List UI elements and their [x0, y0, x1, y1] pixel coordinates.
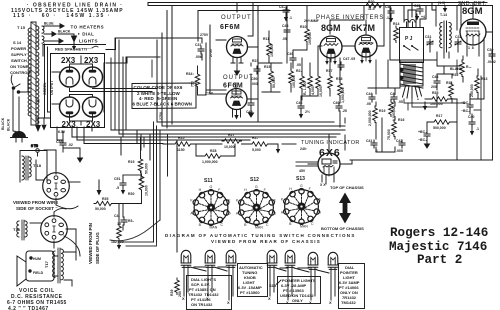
svg-text:240↑: 240↑ — [300, 147, 308, 151]
svg-text:R32: R32 — [452, 73, 458, 77]
resistor R13b — [316, 74, 323, 97]
svg-text:45V: 45V — [299, 169, 306, 173]
label X terminals — [182, 296, 332, 305]
svg-text:100,000: 100,000 — [270, 44, 274, 57]
svg-text:−BC₂: −BC₂ — [461, 109, 470, 113]
lamp L4 — [267, 250, 277, 267]
svg-text:ON TONE: ON TONE — [10, 64, 28, 69]
svg-text:1,000,000: 1,000,000 — [202, 160, 218, 164]
svg-text:S11: S11 — [204, 178, 213, 184]
svg-text:BOTTOM OF CHASSIS: BOTTOM OF CHASSIS — [321, 226, 364, 231]
svg-text:Rogers 12-146: Rogers 12-146 — [390, 226, 488, 240]
svg-text:HUM: HUM — [33, 257, 41, 261]
power plug P1 — [11, 132, 28, 143]
tube V3 2X3 — [60, 97, 80, 117]
resistor R34a 750 — [186, 72, 200, 89]
svg-text:T 15: T 15 — [17, 25, 26, 30]
switch S11 — [190, 185, 231, 230]
resistor R15 — [264, 65, 276, 88]
resistor R21 — [289, 69, 296, 88]
svg-text:50,000: 50,000 — [145, 163, 149, 174]
svg-text:C4₁: C4₁ — [114, 214, 120, 218]
svg-text:C41: C41 — [366, 139, 372, 143]
svg-text:‣ DIAL: ‣ DIAL — [78, 32, 95, 37]
svg-text:C31: C31 — [425, 35, 431, 39]
svg-text:.1: .1 — [476, 127, 479, 131]
rectifier outer enclosure — [43, 45, 106, 57]
svg-text:.05: .05 — [366, 102, 371, 106]
capacitor C31 — [195, 43, 204, 59]
transformer T18 (output to socket) — [22, 156, 42, 180]
resistor R3x — [308, 74, 315, 95]
capacitor C49 — [246, 100, 254, 117]
svg-text:C3₄: C3₄ — [279, 5, 285, 9]
switch S15 — [269, 280, 281, 288]
svg-text:5,000: 5,000 — [252, 148, 261, 152]
tube socket X2 viewed from pin side — [41, 216, 68, 243]
capacitor C41 — [366, 139, 378, 153]
svg-text:OUTPUT: OUTPUT — [50, 80, 54, 95]
svg-text:75,000: 75,000 — [387, 129, 391, 140]
svg-text:100,000: 100,000 — [308, 32, 312, 45]
resistor R39 — [170, 278, 182, 297]
svg-text:X: X — [227, 300, 230, 305]
switch S12 — [236, 185, 277, 230]
wire right low area — [350, 118, 493, 164]
svg-text:R19: R19 — [128, 160, 134, 164]
resistor R24 — [393, 22, 399, 43]
svg-text:R34↕: R34↕ — [186, 72, 194, 76]
wire right region verticals — [376, 60, 481, 160]
svg-text:200: 200 — [431, 85, 437, 89]
lamp L5 — [285, 250, 295, 267]
svg-text:.25: .25 — [342, 109, 347, 113]
svg-text:SIDE OF SOCKET ⁻: SIDE OF SOCKET ⁻ — [16, 206, 58, 211]
svg-text:4.2 ″ ″ TD1467: 4.2 ″ ″ TD1467 — [8, 306, 49, 310]
svg-text:.05: .05 — [296, 63, 301, 67]
lamp L2 — [205, 250, 215, 267]
capacitor C47 — [338, 57, 355, 70]
resistor R20 top — [364, 0, 384, 11]
capacitor C32 trimmer — [425, 35, 433, 47]
svg-text:X: X — [309, 300, 312, 305]
note: viewed from wire side of socket — [13, 200, 58, 211]
svg-text:RED SPAGHETTI⁻⁻: RED SPAGHETTI⁻⁻ — [55, 47, 91, 52]
arrow ground R35 — [423, 102, 427, 111]
svg-text:R30: R30 — [128, 192, 134, 196]
svg-text:50,000: 50,000 — [95, 207, 106, 211]
svg-text:115 · 60 · 145W 1.35 ·: 115 · 60 · 145W 1.35 · — [13, 13, 111, 19]
resistor R25 — [173, 136, 193, 152]
svg-text:6F6M: 6F6M — [220, 24, 240, 31]
arrow T15 bottom ground — [35, 118, 41, 132]
capacitor BC1 BC2 electrolytic — [461, 101, 473, 113]
svg-text:−BC₄: −BC₄ — [418, 138, 427, 142]
svg-text:C48: C48 — [282, 24, 288, 28]
wire secondary leads down — [36, 118, 46, 130]
svg-text:10,000: 10,000 — [224, 145, 235, 149]
capacitor C51 — [114, 177, 126, 195]
resistor R14 — [446, 81, 453, 99]
transformer T17 output — [44, 248, 63, 283]
transformer T14 — [440, 13, 452, 52]
capacitor C45 — [414, 4, 425, 21]
svg-text:.05: .05 — [398, 100, 403, 104]
node fuse 6T0 — [31, 144, 39, 156]
note: dial lights spec — [187, 276, 232, 310]
svg-text:500,000: 500,000 — [433, 126, 446, 130]
svg-text:VIEWED FROM WIRE: VIEWED FROM WIRE — [13, 200, 58, 205]
note: observed line drain table — [11, 3, 124, 20]
resistor R12 — [460, 60, 472, 77]
svg-text:C47 .05: C47 .05 — [343, 57, 355, 61]
resistor R35b — [430, 91, 450, 106]
svg-text:R17: R17 — [326, 69, 332, 73]
resistor R17b — [326, 69, 332, 91]
svg-text:S 14: S 14 — [13, 40, 22, 45]
capacitor C37 — [385, 5, 394, 23]
svg-text:X X: X X — [320, 183, 326, 187]
T18 enclosure box — [20, 151, 47, 183]
svg-text:R27: R27 — [228, 133, 234, 137]
resistor R1 — [389, 100, 396, 121]
svg-text:750: 750 — [191, 81, 195, 87]
note: red spaghetti — [55, 46, 98, 51]
svg-text:C43: C43 — [432, 75, 438, 79]
svg-text:R25: R25 — [178, 136, 184, 140]
svg-text:275V: 275V — [200, 33, 209, 37]
resistor R29 — [250, 136, 270, 152]
svg-text:6 T0: 6 T0 — [31, 144, 38, 148]
svg-text:S12: S12 — [250, 177, 259, 183]
svg-text:CONTROL: CONTROL — [10, 70, 30, 75]
svg-text:R35: R35 — [432, 91, 438, 95]
transformer T15 — [17, 22, 39, 125]
svg-text:TOP OF CHASSIS: TOP OF CHASSIS — [330, 185, 364, 190]
capacitor C49b — [287, 52, 301, 67]
svg-text:TM1432: TM1432 — [340, 300, 356, 305]
tube V6 6F6M — [226, 89, 247, 110]
wire phase inverter area — [251, 3, 390, 128]
capacitor C46 — [296, 101, 310, 119]
resistor R13 — [470, 76, 487, 97]
switch S13 — [281, 184, 322, 229]
capacitor C33 trimmer — [455, 35, 461, 47]
svg-text:BLACK: BLACK — [7, 118, 11, 131]
note: voice coil resistance — [7, 288, 67, 310]
tube V8 6K7M — [355, 28, 377, 64]
svg-text:OUTPUT: OUTPUT — [223, 75, 254, 81]
wire bottom-left interconnects — [114, 137, 142, 230]
svg-text:2½: 2½ — [305, 110, 310, 114]
tube V6 pin wires — [233, 109, 241, 117]
note: dial pointer light spec — [339, 264, 365, 309]
svg-text:Majestic 7146: Majestic 7146 — [389, 240, 487, 254]
capacitor C34 — [279, 5, 292, 22]
wire 2nd det area — [430, 3, 493, 161]
svg-text:8GM: 8GM — [462, 6, 483, 17]
svg-text:S13: S13 — [296, 176, 305, 182]
svg-text:.1: .1 — [386, 16, 389, 20]
note: pointer lights spec — [278, 277, 321, 304]
tube V1 2X3 — [60, 67, 80, 87]
capacitor C47b — [390, 92, 403, 104]
svg-text:1,000,000: 1,000,000 — [341, 87, 345, 103]
wire dial lights arrow down — [72, 41, 76, 50]
svg-text:.005: .005 — [396, 149, 403, 153]
svg-text:.02: .02 — [68, 143, 73, 147]
svg-text:C51: C51 — [114, 177, 120, 181]
svg-text:20½MMF: 20½MMF — [304, 19, 320, 23]
svg-text:PT #13560: PT #13560 — [240, 290, 260, 295]
svg-text:VIEWED FROM PIN: VIEWED FROM PIN — [88, 223, 93, 264]
wire speaker leads — [54, 252, 76, 286]
tube V10 6X6 — [308, 147, 352, 176]
svg-text:.006: .006 — [195, 55, 202, 59]
resistor R11 — [263, 37, 274, 58]
svg-text:C4₇: C4₇ — [390, 92, 396, 96]
svg-text:.0002: .0002 — [487, 60, 496, 64]
capacitor C43 — [431, 75, 440, 89]
switch S14 — [11, 75, 20, 97]
capacitor C48 — [282, 24, 290, 41]
svg-text:.1: .1 — [289, 16, 292, 20]
wire top buses — [105, 3, 492, 129]
svg-text:Rₓ 1,500: Rₓ 1,500 — [303, 81, 307, 95]
resistor R18 — [336, 77, 345, 103]
svg-text:4,000: 4,000 — [311, 86, 315, 95]
svg-text:X: X — [268, 296, 271, 301]
svg-text:T17: T17 — [44, 260, 49, 268]
svg-text:+BC₃: +BC₃ — [418, 130, 427, 134]
svg-text:R11: R11 — [263, 37, 269, 41]
svg-text:ON TR1432: ON TR1432 — [191, 302, 213, 307]
tube V2 2X3 — [83, 67, 103, 87]
svg-text:TUNING INDICATOR: TUNING INDICATOR — [301, 140, 360, 146]
svg-text:R14: R14 — [393, 22, 399, 26]
tube V4 2X3 — [83, 97, 103, 117]
svg-text:R28: R28 — [210, 149, 216, 153]
wire lamp leads — [184, 266, 335, 300]
resistor R10 — [300, 25, 312, 45]
svg-text:SWITCH: SWITCH — [11, 58, 27, 63]
wire right column — [368, 38, 484, 160]
svg-text:X: X — [329, 300, 332, 305]
svg-text:C40: C40 — [468, 115, 474, 119]
svg-text:R2₉: R2₉ — [252, 136, 258, 140]
resistor R16 — [387, 118, 404, 140]
svg-text:(1.0): (1.0) — [438, 1, 445, 5]
tube V7 8GM — [320, 36, 342, 65]
capacitor BC3 BC4 electrolytic — [418, 130, 430, 148]
arrow chassis double — [339, 193, 351, 224]
svg-text:BLACK: BLACK — [1, 117, 5, 130]
svg-text:2,000,000: 2,000,000 — [368, 110, 372, 126]
svg-text:C36: C36 — [56, 140, 62, 144]
capacitor C50 — [251, 59, 260, 86]
svg-text:LIGHTS: LIGHTS — [79, 39, 98, 44]
svg-text:R18: R18 — [336, 77, 342, 81]
svg-text:COLOR CODE OF 6X6: COLOR CODE OF 6X6 — [134, 85, 183, 90]
capacitor C44 — [366, 92, 375, 106]
note: S14 power supply switch — [10, 40, 30, 75]
svg-text:X: X — [182, 296, 185, 301]
jack PJ shield block (hatched) — [400, 62, 423, 88]
svg-text:ONLY: ONLY — [292, 298, 303, 303]
capacitor C42 — [396, 139, 405, 153]
wire mid buses to switches — [57, 38, 345, 252]
jack PJ box — [400, 20, 424, 63]
svg-text:VIEWED FROM REAR OF CHASSI: VIEWED FROM REAR OF CHASSIS — [211, 239, 321, 244]
resistor R19c — [128, 157, 149, 174]
wire plug to switch — [13, 70, 30, 132]
svg-text:TO HEATERS: TO HEATERS — [71, 25, 105, 30]
svg-text:R₁₂: R₁₂ — [466, 65, 472, 69]
wire plug socket leads — [30, 208, 80, 260]
wire socket leads — [36, 150, 80, 209]
speaker SP1 — [17, 251, 54, 286]
lamp L3 — [226, 250, 236, 267]
svg-text:R10: R10 — [300, 25, 306, 29]
resistor R31 — [111, 219, 134, 250]
transformer T18b field — [13, 220, 27, 240]
svg-text:250: 250 — [178, 291, 182, 297]
svg-text:1 8: 1 8 — [468, 46, 474, 50]
lamp L6 — [308, 252, 318, 269]
svg-text:100,000: 100,000 — [292, 75, 296, 88]
svg-text:1150: 1150 — [177, 148, 185, 152]
svg-text:R19: R19 — [379, 109, 385, 113]
svg-text:R39: R39 — [170, 290, 174, 296]
resistor R19 — [368, 106, 385, 126]
ground tube V5 — [235, 66, 240, 75]
svg-text:POWER: POWER — [11, 46, 26, 51]
capacitor C40 — [468, 115, 479, 136]
svg-text:-5: -5 — [116, 186, 119, 190]
svg-text:SUPPLY: SUPPLY — [11, 52, 27, 57]
capacitor C30 — [487, 48, 496, 64]
svg-text:S15: S15 — [269, 283, 277, 288]
svg-text:+4: +4 — [421, 15, 425, 19]
note: color code of 6X6 — [132, 83, 196, 109]
svg-text:P J: P J — [405, 36, 413, 42]
svg-text:R2₂: R2₂ — [296, 69, 302, 73]
wire long verticals to bottom — [110, 122, 168, 246]
svg-text:OUTPUT: OUTPUT — [221, 15, 252, 21]
resistor R2x — [296, 69, 307, 95]
resistor R17 — [432, 114, 452, 130]
wire rectifier internals — [52, 56, 105, 125]
svg-text:FIELD: FIELD — [33, 271, 44, 275]
svg-text:50,000: 50,000 — [272, 77, 276, 88]
svg-text:C46: C46 — [296, 101, 302, 105]
capacitor C36 line bypass — [56, 131, 83, 162]
svg-text:R17: R17 — [436, 114, 442, 118]
svg-text:Part 2: Part 2 — [417, 253, 462, 267]
tube V5 pin wires — [231, 57, 243, 66]
capacitor C41a — [114, 214, 127, 226]
rectifier box — [51, 54, 105, 128]
svg-text:SIDE OF PLUG: SIDE OF PLUG — [95, 232, 100, 264]
svg-text:BLACK: BLACK — [58, 30, 71, 34]
svg-text:R20: R20 — [368, 0, 374, 4]
ground tube V6 — [234, 115, 238, 120]
svg-text:R3₁: R3₁ — [128, 219, 134, 223]
arrow gnd R29 — [276, 145, 280, 154]
svg-text:6.3V: 6.3V — [58, 130, 66, 134]
wire to heaters with arrows — [44, 24, 77, 43]
resistor R27 — [222, 133, 242, 149]
svg-text:X: X — [286, 300, 289, 305]
svg-text:C50: C50 — [251, 77, 257, 81]
svg-text:10,000: 10,000 — [319, 86, 323, 97]
tube socket X1 viewed from wire side — [43, 173, 70, 200]
label BLANK R32 — [450, 67, 463, 77]
note: automatic tuning knob light — [238, 264, 268, 297]
T15 heater windings — [42, 22, 71, 44]
svg-text:8GM: 8GM — [321, 23, 341, 33]
note: to heaters and dial lights — [71, 25, 105, 44]
lamp L7 — [328, 252, 338, 269]
svg-text:11.5: 11.5 — [368, 7, 375, 11]
svg-text:T 18: T 18 — [33, 163, 42, 168]
svg-text:R16: R16 — [398, 118, 404, 122]
resistor R28 — [202, 149, 223, 164]
resistor R30b — [139, 174, 148, 196]
lamp L1 — [181, 250, 191, 267]
wire T15 secondary drops — [45, 44, 51, 118]
wire PJ pins — [400, 3, 426, 99]
svg-text:10,000: 10,000 — [145, 185, 149, 196]
resistor R33 — [94, 180, 123, 211]
svg-text:BLUE: BLUE — [44, 22, 54, 26]
svg-text:DIAGRAM OF AUTOMATIC TUNING: DIAGRAM OF AUTOMATIC TUNING SWITCH CONNE… — [165, 233, 356, 238]
svg-text:R23: R23 — [252, 59, 258, 63]
svg-text:.05: .05 — [282, 37, 287, 41]
capacitor C40b — [333, 101, 347, 113]
svg-text:R15: R15 — [264, 65, 270, 69]
svg-text:GREEN: GREEN — [43, 82, 47, 95]
resistor R4b 1.0 — [438, 1, 447, 13]
svg-text:T-14: T-14 — [440, 13, 447, 17]
svg-text:.003: .003 — [251, 82, 258, 86]
tube V5 6F6M — [227, 37, 248, 58]
svg-text:6K7M: 6K7M — [351, 23, 375, 33]
wire tuning indicator — [296, 135, 345, 184]
wire resistor row — [163, 144, 296, 156]
tube V9 8GM 2nd det — [460, 19, 486, 50]
svg-text:250,000: 250,000 — [470, 84, 474, 97]
